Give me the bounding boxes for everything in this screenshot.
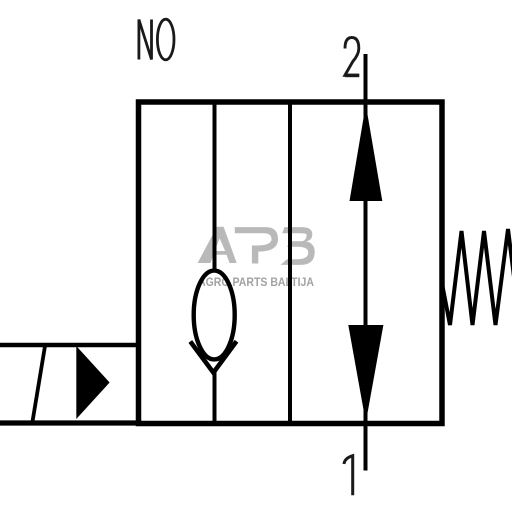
port label 2: [345, 38, 359, 76]
watermark APB logo letter P: [235, 227, 278, 263]
wire left cell centerline upper: [213, 102, 217, 270]
label NO: [139, 19, 174, 60]
solenoid coil slash: [33, 346, 46, 422]
valve body box: [139, 102, 443, 424]
wire port 2 to port 1 vertical line: [364, 54, 368, 471]
watermark APB logo letter B: [281, 227, 315, 265]
solenoid box top line: [0, 343, 141, 348]
valve body cell divider: [288, 102, 292, 424]
solenoid box bottom line: [0, 420, 141, 425]
spring: [442, 229, 512, 325]
wire left cell centerline lower: [213, 372, 217, 424]
flow arrow up: [350, 105, 383, 202]
check valve seat V: [190, 341, 236, 372]
port label 1: [344, 456, 353, 496]
flow arrow down: [348, 325, 383, 423]
solenoid actuator triangle: [76, 346, 109, 419]
check valve ball: [194, 271, 235, 360]
watermark APB logo letter A: [198, 227, 237, 263]
svg-text:AGRO PARTS BALTIJA: AGRO PARTS BALTIJA: [198, 276, 314, 289]
